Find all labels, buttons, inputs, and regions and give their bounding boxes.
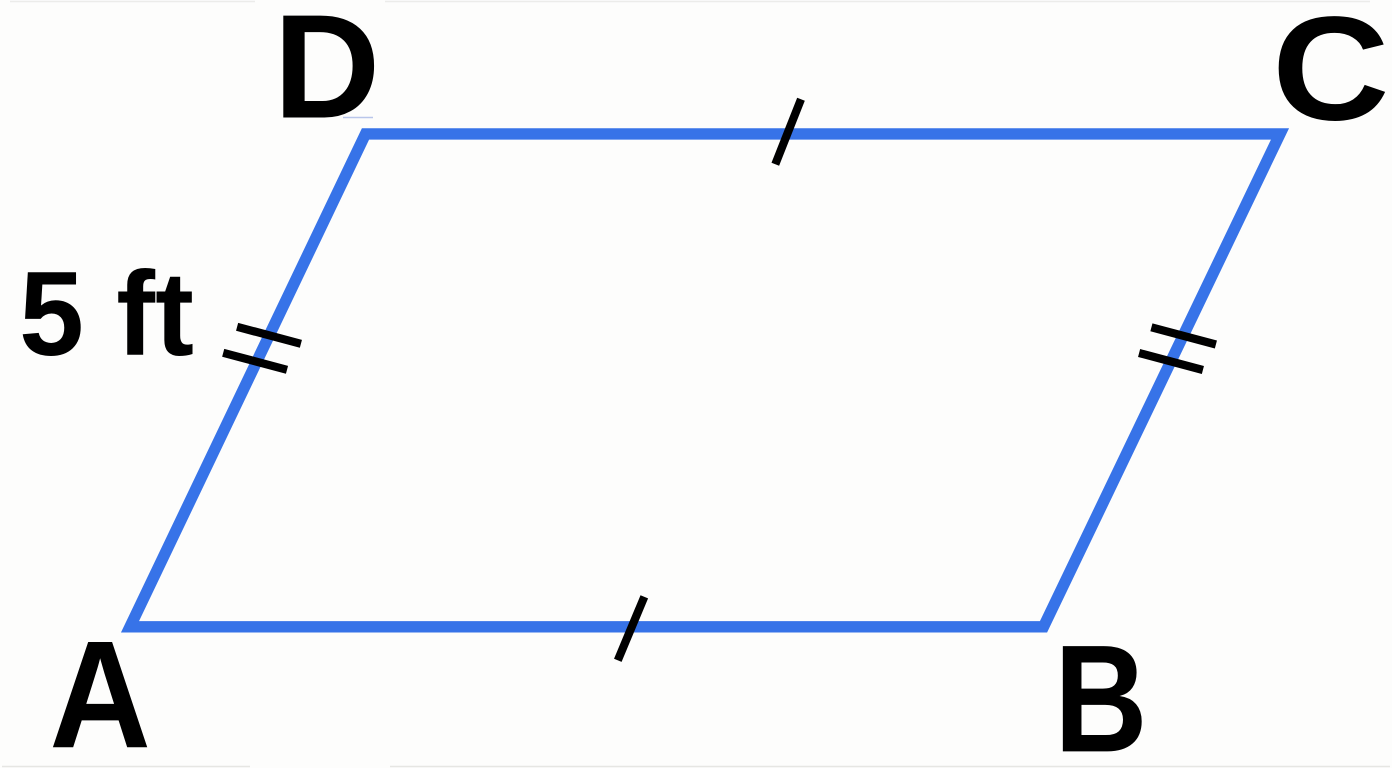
svg-text:B: B [1054,614,1147,768]
svg-text:5 ft: 5 ft [19,247,194,381]
svg-text:D: D [273,0,380,150]
svg-text:C: C [1272,0,1390,151]
svg-text:A: A [49,610,151,768]
